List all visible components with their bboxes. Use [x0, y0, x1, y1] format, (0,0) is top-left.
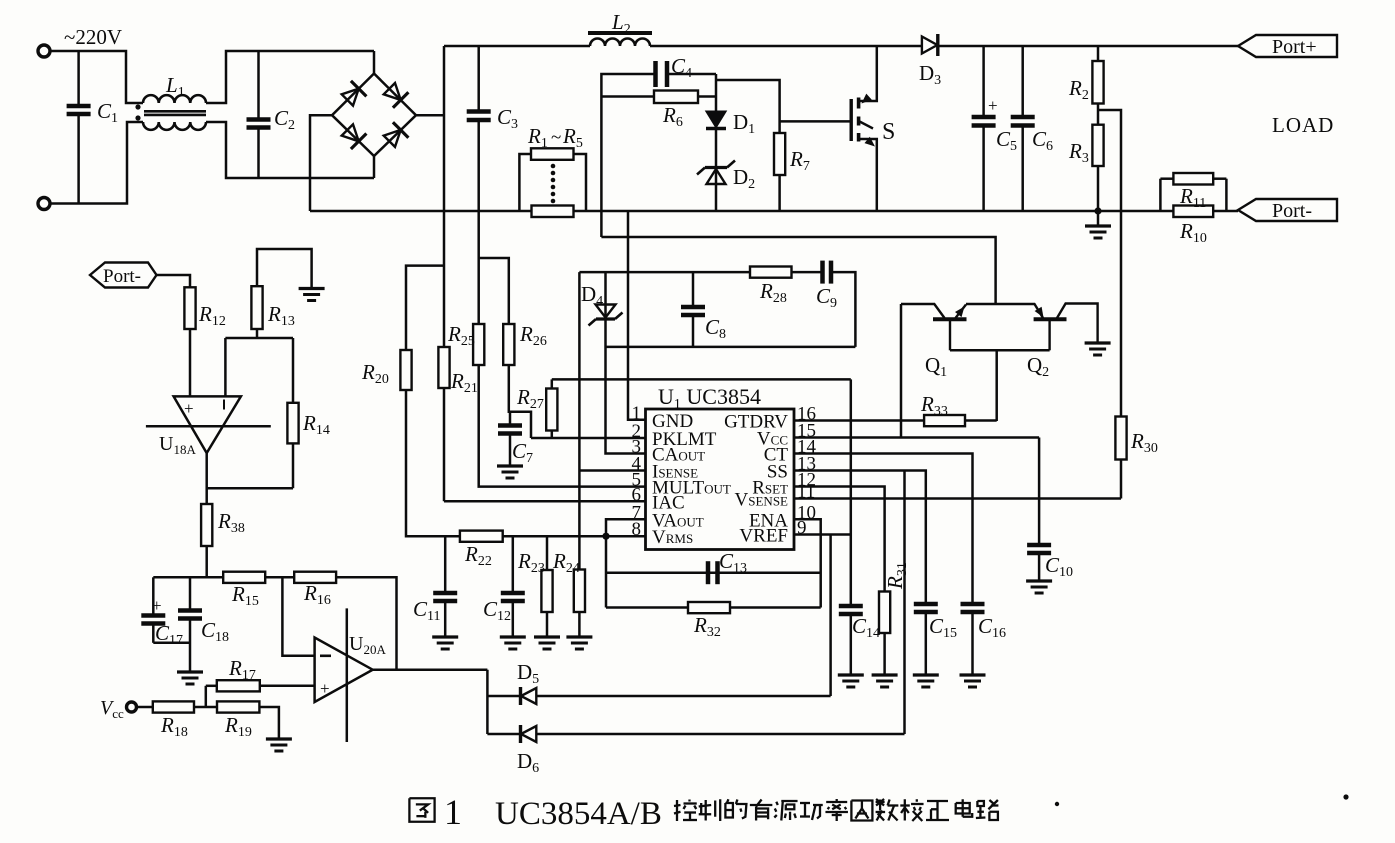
mosfet S gate bar [850, 99, 853, 141]
wire bridge bottom stub [373, 156, 376, 178]
wire bridge positive out [416, 114, 444, 117]
svg-text:1: 1 [444, 792, 462, 832]
transistor Q2 [1034, 304, 1043, 319]
ground bus [1097, 211, 1100, 226]
svg-text:CAOUT: CAOUT [652, 445, 705, 466]
ground C12 [500, 635, 526, 638]
terminal input bottom [38, 198, 50, 210]
wire out down [486, 670, 489, 734]
wire Vcc to C10 [1038, 438, 1041, 546]
resistor R1 [531, 148, 574, 160]
wire R13 top [257, 249, 312, 289]
wire R1-R5 right rail [574, 154, 587, 211]
port flag Port- left [90, 263, 157, 288]
capacitor C3 [477, 46, 480, 112]
capacitor C7 [509, 412, 512, 426]
wire bridge negative out [310, 115, 332, 211]
mosfet S source lead [860, 139, 877, 211]
capacitor C11 [444, 536, 447, 593]
mosfet S channel [857, 98, 861, 109]
svg-text:UC3854A/B: UC3854A/B [495, 796, 662, 832]
diode D6 [519, 725, 522, 743]
op-amp U18A [174, 396, 241, 453]
wire to R7 top [716, 80, 780, 133]
wire pin7 VAout [606, 519, 646, 536]
capacitor C10 [1027, 543, 1051, 548]
wire pin14 CT [794, 454, 973, 605]
svg-text:VRMS: VRMS [652, 527, 693, 548]
caption Figure 1 [409, 798, 434, 822]
capacitor C14 [839, 604, 863, 609]
wire bridge top stub [373, 51, 376, 74]
resistor R2 [1097, 46, 1100, 61]
resistor R11 [1160, 177, 1173, 180]
wire U18A out [205, 453, 208, 504]
bridge diode top-right [384, 83, 401, 100]
stray dot [1343, 794, 1348, 799]
diode D3 [922, 37, 937, 54]
wire pin4 Isense [579, 469, 645, 472]
wire R19 to gnd [259, 707, 279, 739]
svg-text:+: + [320, 679, 330, 698]
wire R20 top link [406, 266, 444, 350]
wire inv input link [225, 337, 293, 340]
port flag Port- right [1238, 199, 1337, 221]
wire gate link [780, 120, 852, 123]
resistor R12 [184, 287, 195, 329]
wire C4 right [667, 73, 716, 76]
ground C15 [913, 673, 939, 676]
wire R6 left [601, 95, 654, 98]
inductor L1 [143, 95, 206, 103]
ground C14 [838, 673, 864, 676]
svg-text:+: + [988, 96, 998, 115]
resistor R13 [251, 286, 262, 329]
wire feedback U18A [207, 487, 293, 490]
wire Q1 Q2 emitter bar [966, 303, 1035, 306]
wire VREF to D5 [829, 535, 832, 697]
op-amp U20A [315, 638, 373, 703]
wire bases to R33 [995, 350, 998, 421]
svg-text:LOAD: LOAD [1272, 113, 1334, 137]
resistor R27 [551, 431, 554, 439]
wire pin2 PKLMT [531, 437, 646, 440]
svg-text:VSENSE: VSENSE [735, 490, 789, 511]
capacitor C17 [152, 577, 155, 615]
resistor R33 [924, 415, 965, 426]
wire R13 bottom [256, 329, 259, 338]
wire pin12 Rset [794, 487, 885, 592]
resistor R22 [460, 531, 503, 542]
wire R12 to opamp [189, 329, 192, 396]
svg-text:U1 UC3854: U1 UC3854 [658, 384, 761, 412]
bridge diode top-left [342, 89, 359, 106]
capacitor C12 [512, 536, 515, 593]
wire ac input top [50, 51, 143, 103]
wire loop top [579, 271, 750, 274]
bridge diode bottom-left [342, 124, 359, 141]
svg-text:SS: SS [767, 462, 788, 483]
wire R33 to bases [965, 419, 997, 422]
resistor R16 [294, 572, 336, 583]
wire dot to R32 [605, 536, 608, 607]
wire pin3 CAout [606, 272, 646, 453]
wire pin9 VREF [794, 533, 851, 536]
wire R15 line left [153, 576, 223, 579]
wire R26 top link [479, 258, 509, 324]
svg-text:S: S [882, 119, 895, 145]
node bus R3 [1094, 207, 1101, 214]
wire D6 line left [487, 733, 520, 736]
wire L1 to C2 top [206, 51, 374, 103]
IC U1 UC3854 body [646, 409, 795, 550]
capacitor C13 [706, 561, 711, 584]
wire R26 bottom jog [509, 365, 531, 438]
wire R2 R3 mid [1097, 104, 1100, 125]
wire R6 right [698, 95, 716, 98]
resistor R31 [879, 592, 890, 634]
wire R1-R5 left rail [519, 154, 531, 211]
capacitor C9 [820, 261, 825, 284]
svg-text:Port-: Port- [103, 266, 141, 287]
node pin7 pin8 [602, 533, 609, 540]
wire R28 to C9 [792, 271, 821, 274]
resistor R14 [287, 403, 298, 444]
wire loop bottom [606, 346, 856, 349]
wire R17 R18 link [205, 686, 208, 707]
capacitor C16 [961, 602, 985, 607]
wire inv input down [224, 338, 227, 396]
ground R13 [299, 287, 325, 290]
diode D5 [519, 687, 522, 705]
ground R24 [566, 635, 592, 638]
wire top rail mid [650, 45, 921, 48]
svg-text:~: ~ [551, 127, 561, 148]
resistor R10 [1173, 206, 1213, 218]
resistor R32 [688, 602, 730, 613]
ground C10 [1026, 579, 1052, 582]
wire pin10 ENA [794, 519, 821, 607]
wire pin16 GTDRV [794, 419, 924, 422]
wire ac input bottom [50, 122, 143, 204]
capacitor C15 [914, 602, 938, 607]
VREF C14 column [850, 379, 853, 606]
wire pin15 Vcc [794, 436, 1039, 439]
resistor R20 [400, 350, 411, 390]
wire R7 bottom [778, 175, 781, 211]
resistor R5 [532, 206, 574, 218]
resistor R38 [201, 504, 212, 546]
zener D4 [596, 305, 616, 318]
zener D2 [707, 169, 726, 184]
wire C4 left [601, 74, 655, 237]
svg-text:~220V: ~220V [64, 25, 122, 49]
resistor R3 [1092, 125, 1103, 166]
ground C7 [497, 464, 523, 467]
resistor R19 [217, 701, 259, 712]
capacitor C8 [692, 272, 695, 307]
wire pin11 Vsense [794, 497, 1121, 500]
wire R18 R19 link [194, 706, 217, 709]
capacitor C18 [189, 577, 192, 610]
ground R31 [872, 673, 898, 676]
capacitor C1 [77, 51, 80, 106]
wire Vcc to R18 [137, 706, 153, 709]
wire pin8 VRMS [406, 390, 646, 536]
svg-text:Port+: Port+ [1272, 36, 1317, 58]
wire D5 line right [536, 695, 830, 698]
inductor L2 [590, 39, 650, 46]
wire R27 to VREF col [552, 378, 851, 381]
resistor R15 [223, 572, 265, 583]
ground R19 [266, 737, 292, 740]
wire D1 D2 column [715, 74, 718, 211]
caption chinese text [676, 800, 678, 821]
wire pin6 IAC [444, 500, 646, 503]
wire D5 line left [487, 695, 520, 698]
resistor R6 [654, 91, 698, 104]
resistor R23 [546, 536, 549, 570]
resistor R25 [473, 324, 484, 365]
wire top rail left [444, 45, 590, 48]
wire C17 to C18 [153, 642, 190, 645]
wire loop right [831, 272, 855, 347]
ground Q2 [1085, 341, 1111, 344]
terminal input top [38, 45, 50, 57]
wire Port- to R12 [157, 275, 191, 287]
wire D6 line right [536, 733, 904, 736]
wire top rail right [938, 45, 1238, 48]
resistor R17 [206, 685, 217, 688]
wire R32 line [606, 606, 821, 609]
diode bridge frame [332, 74, 416, 157]
ground C18 [177, 670, 203, 673]
wire Q1 Q2 base loop [950, 349, 1050, 352]
wire R25 to MULT pin5 [479, 365, 646, 487]
wire R14 top [292, 338, 295, 403]
resistor R7 [774, 133, 785, 175]
capacitor C2 [257, 51, 260, 120]
wire R38 bottom [205, 546, 208, 577]
capacitor C4 [653, 61, 658, 87]
wire U20A out [373, 668, 488, 671]
wire C13 line [606, 571, 821, 574]
wire R16 right [336, 577, 396, 670]
wire R15 R16 link [265, 576, 294, 579]
transistor Q1 [901, 304, 945, 318]
svg-text:VREF: VREF [739, 526, 788, 547]
resistor R21 [438, 347, 449, 388]
wire main bus [310, 210, 1238, 213]
wire inv U20A [282, 577, 314, 656]
diode D1 [707, 112, 726, 128]
wire R30 to Vsense [1120, 460, 1123, 499]
wire Vcc to Q1 [900, 304, 903, 438]
svg-text:Port-: Port- [1272, 200, 1312, 222]
resistor R30 [1115, 417, 1126, 460]
mosfet S body tick [859, 121, 873, 129]
wire Isense column [578, 272, 581, 569]
capacitor C5 [982, 46, 985, 117]
mosfet S drain lead [860, 46, 877, 101]
vertical A rail to IAC [443, 46, 446, 347]
ground C16 [960, 673, 986, 676]
dotted link R1-R5 [551, 164, 556, 169]
resistor R28 [750, 267, 792, 278]
ground R23 [534, 635, 560, 638]
port flag Port+ [1238, 35, 1337, 57]
resistor R26 [503, 324, 514, 365]
svg-text:+: + [184, 399, 194, 418]
capacitor C6 [1021, 46, 1024, 117]
resistor R18 [153, 701, 194, 712]
wire pin13 SS [794, 471, 926, 605]
wire SS to D6 [903, 471, 906, 735]
svg-text:+: + [152, 596, 162, 615]
ground C11 [432, 635, 458, 638]
terminal Vcc [127, 702, 137, 712]
wire L1 to C2 bottom [206, 122, 374, 178]
resistor R24 [574, 570, 585, 613]
wire gate bus [601, 237, 995, 304]
wire pin1 GND [628, 211, 646, 420]
wire R14 bottom [292, 443, 295, 488]
bridge diode bottom-right [384, 130, 401, 147]
wire divider to R30 [1098, 110, 1121, 417]
